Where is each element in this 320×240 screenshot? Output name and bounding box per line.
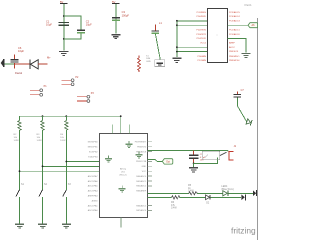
svg-text:ADC1/PA1: ADC1/PA1 bbox=[88, 204, 99, 207]
svg-text:Fan1: Fan1 bbox=[15, 71, 22, 75]
node bbox=[65, 115, 67, 117]
node bbox=[176, 20, 178, 22]
switch S1 bbox=[16, 183, 25, 224]
ground bbox=[173, 58, 182, 63]
wire bbox=[148, 196, 172, 198]
resistor R6 bbox=[171, 196, 180, 210]
svg-text:PA2/ADC2: PA2/ADC2 bbox=[136, 185, 147, 188]
svg-text:ADC0/PA0: ADC0/PA0 bbox=[88, 209, 99, 212]
resistor R2 bbox=[14, 116, 22, 142]
wire bbox=[228, 192, 253, 194]
wire bbox=[4, 63, 14, 65]
capacitor C5 bbox=[189, 150, 206, 163]
svg-text:(Rev.2): (Rev.2) bbox=[119, 174, 126, 176]
svg-text:Part1: Part1 bbox=[245, 3, 253, 7]
svg-text:ADC5/PA6: ADC5/PA6 bbox=[88, 180, 99, 183]
wire bbox=[19, 130, 21, 190]
svg-text:PB7/RESET: PB7/RESET bbox=[135, 142, 147, 144]
node bbox=[65, 161, 67, 163]
node bbox=[193, 163, 195, 165]
svg-text:GND: GND bbox=[142, 166, 147, 168]
wire bbox=[148, 192, 189, 194]
svg-text:VCC2: VCC2 bbox=[200, 42, 207, 44]
svg-text:10µF: 10µF bbox=[86, 23, 92, 27]
svg-text:PB5/ADC8: PB5/ADC8 bbox=[136, 150, 147, 153]
ground bbox=[38, 224, 47, 229]
svg-text:PD3/INT1: PD3/INT1 bbox=[196, 34, 206, 36]
capacitor L1 bbox=[152, 21, 163, 34]
svg-text:PC1/ADC1: PC1/ADC1 bbox=[229, 28, 240, 31]
svg-text:GND: GND bbox=[146, 61, 151, 63]
svg-text:PD7/AIN: PD7/AIN bbox=[197, 59, 206, 62]
svg-text:PD6/AIN: PD6/AIN bbox=[197, 55, 206, 58]
mcu U2 bbox=[100, 134, 148, 218]
wire bbox=[43, 165, 100, 167]
ic Part1 bbox=[208, 9, 228, 63]
wire bbox=[228, 38, 246, 52]
svg-text:PB3/OC1B: PB3/OC1B bbox=[136, 161, 147, 163]
svg-text:PD4/XCK: PD4/XCK bbox=[197, 38, 207, 40]
wire bbox=[237, 98, 246, 122]
label Part1 bbox=[245, 3, 253, 7]
pin labels left bbox=[196, 12, 206, 62]
svg-text:MOSI/PB0: MOSI/PB0 bbox=[88, 142, 99, 144]
connector P3 bbox=[77, 92, 94, 102]
svg-text:PC3/ADC3: PC3/ADC3 bbox=[229, 20, 240, 23]
resistor R3 bbox=[37, 116, 45, 142]
node bbox=[63, 15, 65, 17]
svg-text:1/4W: 1/4W bbox=[171, 207, 177, 210]
node bbox=[176, 24, 178, 26]
svg-text:PD2/INT0: PD2/INT0 bbox=[196, 29, 206, 31]
svg-text:(Blue 5mm): (Blue 5mm) bbox=[221, 188, 234, 191]
capacitor C3 bbox=[112, 10, 130, 21]
wire bbox=[148, 160, 163, 162]
wire bbox=[64, 16, 81, 30]
power flag 5V bbox=[112, 0, 120, 4]
wire bbox=[42, 130, 44, 190]
wire bus bbox=[177, 21, 207, 57]
svg-text:AREF/PA3: AREF/PA3 bbox=[88, 195, 99, 198]
ground bbox=[242, 53, 251, 58]
svg-text:fritzing: fritzing bbox=[231, 226, 256, 236]
pin stubs U2 right bbox=[148, 142, 152, 211]
connector P1 bbox=[30, 85, 47, 96]
wire bbox=[65, 130, 67, 190]
svg-text:PB3/MOSI: PB3/MOSI bbox=[229, 60, 240, 62]
wire bbox=[38, 63, 47, 65]
svg-text:AREF: AREF bbox=[229, 41, 235, 44]
svg-text:PC5/ADC5: PC5/ADC5 bbox=[229, 11, 240, 14]
ground bbox=[126, 141, 133, 148]
wire bbox=[120, 217, 122, 227]
node bbox=[176, 51, 178, 53]
wire bbox=[111, 125, 113, 134]
node bbox=[19, 170, 21, 172]
capacitor C1 bbox=[46, 19, 69, 26]
wire bbox=[197, 192, 222, 194]
svg-text:M+: M+ bbox=[47, 56, 51, 60]
svg-text:100µF: 100µF bbox=[122, 13, 130, 17]
LED D5 bbox=[246, 119, 253, 126]
svg-text:PA1/ADC1: PA1/ADC1 bbox=[136, 180, 147, 183]
crystal X1 bbox=[146, 55, 165, 66]
label M+ bbox=[47, 56, 51, 60]
node bbox=[176, 46, 178, 48]
wire bbox=[228, 24, 248, 26]
svg-text:ADC3/PA4: ADC3/PA4 bbox=[88, 190, 99, 193]
svg-text:PB5/SCK: PB5/SCK bbox=[229, 51, 239, 53]
svg-text:1/4W: 1/4W bbox=[188, 190, 194, 193]
svg-text:PB6/INT0: PB6/INT0 bbox=[137, 147, 147, 149]
label Fan1 bbox=[15, 71, 22, 75]
svg-text:ADC6/PA7: ADC6/PA7 bbox=[88, 175, 99, 178]
svg-text:10µF: 10µF bbox=[18, 49, 24, 53]
canvas frame line bbox=[257, 18, 259, 240]
wire bbox=[148, 150, 229, 151]
ground bbox=[189, 163, 198, 172]
power flag 5V bbox=[60, 0, 68, 4]
ground bbox=[15, 224, 24, 229]
wire bbox=[194, 158, 218, 164]
svg-text:AVCC: AVCC bbox=[229, 46, 235, 49]
svg-text:PA6/ADC5: PA6/ADC5 bbox=[136, 204, 147, 207]
node bbox=[120, 115, 122, 117]
wire bbox=[64, 33, 81, 39]
diode D2 bbox=[206, 195, 211, 205]
node bbox=[42, 115, 44, 117]
svg-text:MISO/PB1: MISO/PB1 bbox=[88, 147, 99, 149]
ground bbox=[59, 51, 68, 56]
switch S3 bbox=[63, 183, 72, 224]
node A6 bbox=[248, 23, 258, 28]
wire bbox=[63, 4, 65, 50]
svg-text:ADC4/PA5: ADC4/PA5 bbox=[88, 185, 99, 188]
svg-text:AGND: AGND bbox=[92, 199, 99, 202]
svg-text:Out: Out bbox=[166, 160, 170, 163]
svg-text:XTAL/PB4: XTAL/PB4 bbox=[88, 155, 98, 158]
ground bbox=[105, 156, 112, 163]
node bbox=[63, 38, 65, 40]
connector P2 bbox=[61, 76, 79, 85]
capacitor C2 bbox=[77, 19, 92, 33]
wire rail bbox=[20, 116, 121, 133]
wire bbox=[20, 170, 100, 172]
LED LED4 bbox=[221, 185, 234, 196]
wire bbox=[180, 196, 206, 198]
resistor R5 bbox=[188, 184, 197, 195]
wire bbox=[128, 125, 130, 134]
ground bbox=[112, 34, 121, 39]
fritzing watermark bbox=[231, 226, 256, 236]
ground bbox=[62, 224, 71, 229]
resistor R1 bbox=[138, 56, 141, 73]
svg-text:SCK/PB2: SCK/PB2 bbox=[89, 151, 99, 153]
svg-text:16M: 16M bbox=[146, 58, 150, 60]
wire bbox=[66, 161, 99, 163]
ground bbox=[136, 152, 143, 159]
svg-text:PA0/ADC0: PA0/ADC0 bbox=[136, 175, 147, 178]
svg-text:PA7/ADC6: PA7/ADC6 bbox=[136, 209, 147, 212]
svg-text:PD0/RXD: PD0/RXD bbox=[197, 16, 207, 18]
wire bbox=[155, 34, 160, 60]
switch S4 bbox=[202, 151, 226, 159]
capacitor C6 bbox=[10, 46, 24, 69]
svg-text:PB4/MISO: PB4/MISO bbox=[229, 56, 240, 58]
svg-text:PC0/ADC0: PC0/ADC0 bbox=[229, 33, 240, 36]
pin labels right bbox=[229, 11, 240, 62]
pin labels U2 left bbox=[88, 142, 99, 213]
svg-text:ATtiny: ATtiny bbox=[120, 167, 127, 170]
node bbox=[42, 165, 44, 167]
wire bbox=[14, 63, 29, 65]
svg-text:PC4/ADC4: PC4/ADC4 bbox=[229, 15, 240, 18]
svg-text:VCC: VCC bbox=[142, 171, 147, 173]
pin labels U2 right bbox=[135, 142, 147, 213]
LED LED5 bbox=[253, 190, 257, 196]
wire bbox=[115, 4, 117, 34]
svg-text:PC6/RES: PC6/RES bbox=[197, 12, 207, 14]
svg-text:PA3/AREF: PA3/AREF bbox=[136, 190, 147, 193]
diode D6 bbox=[29, 60, 38, 69]
wire bbox=[211, 196, 242, 198]
svg-text:10µF: 10µF bbox=[46, 23, 52, 27]
speaker Fan1 bbox=[1, 59, 5, 67]
capacitor C7 bbox=[234, 89, 245, 98]
ground bbox=[119, 186, 126, 193]
node Out bbox=[162, 159, 173, 164]
LED LED3 bbox=[241, 194, 245, 200]
resistor R4 bbox=[60, 116, 68, 142]
switch S2 bbox=[39, 183, 48, 224]
connector J1 bbox=[229, 145, 237, 160]
